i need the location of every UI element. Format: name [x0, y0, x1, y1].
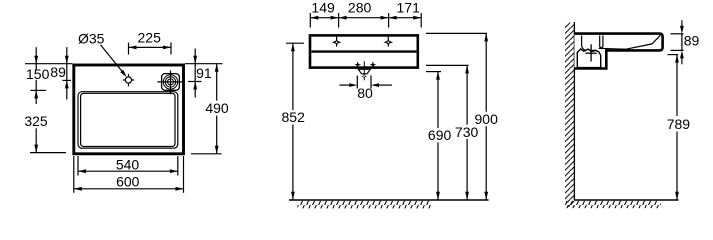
- svg-text:789: 789: [667, 116, 691, 132]
- svg-text:490: 490: [205, 100, 229, 116]
- dim 150 line: [35, 47, 37, 64]
- top view: basin outer rim rectangle: [74, 65, 184, 154]
- svg-text:852: 852: [282, 109, 306, 125]
- dim 89 rim height: [671, 33, 684, 35]
- dim 540: [78, 170, 178, 172]
- dim 280: [339, 16, 347, 20]
- svg-text:900: 900: [475, 111, 499, 127]
- dim 690: [426, 71, 441, 73]
- side view: drain axis mark: [590, 44, 592, 61]
- dim 852 height: [286, 42, 304, 44]
- drain sparkles on basin bottom edge: [354, 61, 361, 68]
- front view: faucet mark left: [336, 36, 338, 46]
- dim 149: [310, 17, 421, 19]
- top view: faucet hole center mark: [123, 79, 134, 81]
- svg-text:600: 600: [116, 174, 140, 190]
- tick 150 bottom: [31, 89, 47, 91]
- side view: basin profile outline: [574, 34, 662, 69]
- front view: front lip bottom line: [311, 50, 416, 52]
- svg-text:225: 225: [138, 30, 162, 46]
- top view: inner bowl double line: [78, 92, 178, 149]
- svg-text:91: 91: [196, 65, 212, 81]
- drain axis vertical stub: [363, 61, 365, 67]
- floor line under front view: [289, 199, 489, 201]
- svg-text:280: 280: [348, 0, 372, 16]
- wall line: [573, 22, 575, 200]
- svg-text:171: 171: [397, 0, 421, 16]
- dim 171: [389, 16, 397, 20]
- top dimension extension ticks: [309, 13, 311, 28]
- bottom extension lines: [77, 156, 79, 176]
- side view: bowl interior left: [582, 36, 597, 51]
- dim 900: [426, 32, 487, 34]
- svg-text:149: 149: [311, 0, 335, 16]
- wall hatching: [565, 23, 574, 208]
- svg-text:540: 540: [116, 156, 140, 172]
- floor hatching: [298, 201, 432, 209]
- svg-text:325: 325: [24, 113, 48, 129]
- floor hatching right: [566, 201, 661, 208]
- side view: siphon cover: [577, 49, 600, 68]
- dim 789: [668, 54, 679, 56]
- svg-text:150: 150: [26, 66, 50, 82]
- right extension tick at rim top: [185, 63, 223, 65]
- svg-text:89: 89: [50, 64, 66, 80]
- front view: basin body: [310, 35, 418, 67]
- dim 91 line: [194, 49, 196, 64]
- floor line under side view: [574, 199, 678, 201]
- dim 490 line: [215, 64, 219, 72]
- svg-text:Ø35: Ø35: [78, 31, 105, 47]
- side view: overflow slot: [599, 36, 601, 48]
- dim 600: [74, 188, 184, 190]
- svg-text:89: 89: [684, 32, 700, 48]
- dim 80 drain: [356, 76, 358, 89]
- side view: bowl interior slope: [599, 35, 661, 49]
- left extension tick at rim top: [25, 63, 72, 65]
- svg-text:80: 80: [357, 85, 373, 101]
- svg-text:690: 690: [428, 127, 452, 143]
- drain flange under basin: [358, 69, 370, 74]
- top view: waste/overflow square fitting: [162, 74, 180, 91]
- dim 225 faucet-to-waste: [128, 43, 130, 55]
- dim 89 left line: [66, 47, 68, 64]
- dim 730: [426, 64, 469, 66]
- drain axis sparkle: [361, 73, 367, 79]
- front view: faucet mark right: [387, 36, 389, 46]
